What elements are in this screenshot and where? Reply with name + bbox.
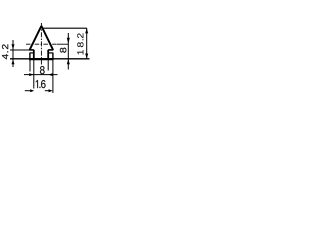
left dim arrow up	[12, 59, 15, 64]
inner right arrow up	[67, 59, 70, 64]
left extension line (head underside level)	[10, 49, 30, 51]
lower dimension line 1.6 left segment	[25, 90, 31, 92]
lower dim right arrow	[49, 89, 53, 92]
plate top right	[48, 52, 53, 54]
left dimension line 4.2	[12, 40, 14, 67]
stem width dimension line 8	[24, 74, 58, 76]
apex extension line	[43, 27, 87, 29]
bottom extension line x33.8	[33, 60, 35, 89]
vertical centerline	[40, 23, 42, 65]
bottom extension line x30	[29, 60, 31, 72]
head underside left	[29, 49, 33, 51]
stem wall left	[33, 50, 35, 59]
stem width arrow left-pointing	[48, 73, 52, 76]
base line	[10, 58, 90, 60]
left dim arrow down	[12, 44, 15, 50]
inner right dimension line 8	[67, 33, 69, 70]
outer right dimension line 18.2	[86, 28, 88, 59]
plate top left	[30, 52, 34, 54]
stem wall right	[47, 50, 49, 59]
outer right arrow down (bottom)	[85, 54, 88, 59]
outer right arrow up (top)	[85, 28, 88, 33]
inner right arrow down	[67, 38, 70, 44]
plate left edge	[29, 53, 31, 59]
lower dimension line 1.6 right segment	[45, 90, 49, 92]
lower dim text 1.6	[36, 80, 46, 88]
lower dim left arrow	[30, 89, 34, 92]
extension line from centerline to right dim	[57, 43, 69, 45]
left dim text 4.2	[2, 44, 8, 59]
base thick segment under part	[29, 58, 54, 60]
bottom extension line x52.9	[52, 60, 54, 93]
arrow head left slope	[30, 26, 42, 50]
bottom extension line x48.2	[47, 60, 49, 71]
stem width text 8	[40, 66, 45, 74]
inner right dim text 8	[60, 48, 66, 53]
arrow head right slope	[41, 26, 53, 50]
outer right dim text 18.2	[77, 33, 83, 54]
head underside right	[48, 49, 53, 51]
plate right edge	[52, 53, 54, 59]
horizontal centerline	[26, 43, 57, 45]
stem width arrow right-pointing	[29, 73, 34, 76]
